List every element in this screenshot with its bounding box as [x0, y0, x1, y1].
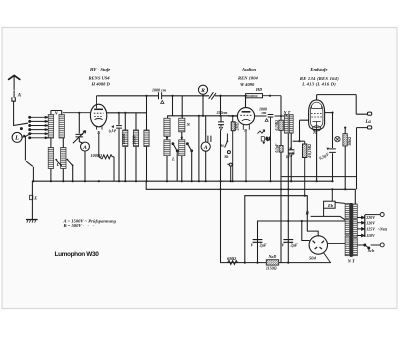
svg-text:50kΩ: 50kΩ: [348, 137, 352, 146]
svg-text:REN 1804: REN 1804: [238, 76, 258, 81]
svg-text:N: N: [186, 122, 191, 127]
svg-text:E: E: [33, 196, 37, 201]
svg-text:L: L: [14, 135, 19, 142]
svg-text:100000: 100000: [122, 134, 126, 145]
svg-text:1000Ω: 1000Ω: [91, 153, 103, 158]
svg-text:L 413 (L 416 D): L 413 (L 416 D): [301, 82, 336, 87]
svg-text:N T: N T: [347, 259, 355, 264]
svg-text:20000: 20000: [133, 135, 137, 145]
svg-text:125V: 125V: [366, 227, 375, 232]
svg-text:RE 134 (RES 164): RE 134 (RES 164): [300, 76, 339, 81]
svg-text:110V: 110V: [366, 233, 375, 238]
svg-text:504: 504: [309, 256, 317, 261]
svg-text:HD: HD: [255, 87, 262, 92]
svg-text:220V: 220V: [365, 215, 375, 220]
svg-text:1000 cm: 1000 cm: [152, 87, 166, 92]
svg-text:Sb: Sb: [224, 154, 228, 159]
svg-text:Audion: Audion: [241, 67, 256, 72]
svg-text:350cm: 350cm: [216, 110, 228, 115]
svg-text:RENS U94: RENS U94: [89, 75, 111, 80]
svg-text:Lumophon W30: Lumophon W30: [55, 251, 100, 258]
svg-text:A: A: [17, 94, 22, 99]
svg-text:La: La: [365, 120, 372, 125]
svg-text:R: R: [200, 88, 205, 94]
svg-text:Eb: Eb: [327, 203, 334, 208]
svg-text:L: L: [56, 162, 60, 167]
svg-text:N: N: [53, 111, 58, 116]
svg-text:cm: cm: [262, 110, 267, 115]
svg-text:NaD: NaD: [268, 254, 277, 259]
svg-text:HF - Stufe: HF - Stufe: [89, 67, 110, 72]
svg-text:2μF: 2μF: [290, 243, 298, 248]
svg-text:0,1μF: 0,1μF: [275, 143, 279, 152]
svg-text:2MΩ: 2MΩ: [235, 122, 239, 131]
svg-text:0,1: 0,1: [266, 137, 271, 141]
svg-text:1150Ω: 1150Ω: [266, 266, 277, 271]
svg-text:W 4090: W 4090: [240, 82, 255, 87]
svg-text:A: A: [203, 145, 208, 151]
svg-text:100000: 100000: [247, 94, 257, 98]
svg-text:6MΩ: 6MΩ: [227, 256, 237, 261]
svg-text:Endstufe: Endstufe: [309, 67, 327, 72]
svg-text:A: A: [82, 145, 87, 151]
svg-text:B = 500V - · ·: B = 500V - · ·: [63, 223, 95, 228]
svg-text:0,1MΩ: 0,1MΩ: [275, 120, 279, 131]
svg-text:H 4088 D: H 4088 D: [91, 82, 111, 87]
svg-text:~Netz: ~Netz: [378, 227, 388, 232]
svg-text:2μF: 2μF: [259, 243, 267, 248]
svg-text:H: H: [305, 211, 310, 216]
svg-text:N T: N T: [283, 110, 291, 115]
svg-text:120V: 120V: [366, 220, 375, 225]
svg-text:Sch: Sch: [368, 248, 375, 253]
svg-text:L: L: [171, 157, 175, 162]
svg-text:4/0,1MΩ: 4/0,1MΩ: [308, 144, 312, 159]
